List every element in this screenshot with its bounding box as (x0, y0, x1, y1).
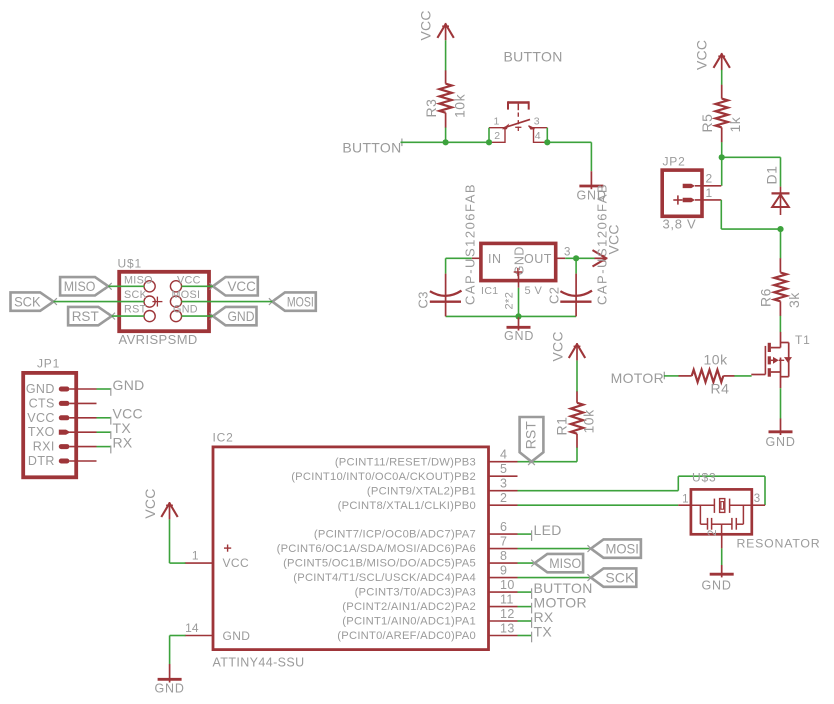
VCC text at OUT (606, 224, 622, 254)
net label BUTTON at switch (342, 139, 402, 156)
svg-text:2*2: 2*2 (504, 292, 516, 310)
svg-text:3: 3 (754, 493, 760, 505)
IC1 value 2*2 vertical (504, 292, 516, 310)
JP1 pin leads (69, 389, 96, 461)
svg-text:VCC: VCC (142, 488, 158, 518)
C3 value CAP-US1206FAB (463, 183, 478, 305)
svg-text:LED: LED (534, 522, 562, 538)
wire RST net vertical (576, 447, 578, 462)
wire VCC to R3 (445, 40, 447, 70)
U$1 pin name MOSI (172, 289, 201, 301)
net label VCC at JP1 (111, 406, 143, 425)
svg-text:(PCINT4/T1/SCL/USCK/ADC4)PA4: (PCINT4/T1/SCL/USCK/ADC4)PA4 (293, 572, 476, 584)
IC1 value 5 V (525, 285, 543, 297)
svg-text:5: 5 (500, 462, 507, 476)
switch pin box 2 (489, 128, 505, 143)
svg-text:BUTTON: BUTTON (504, 49, 563, 65)
svg-text:GND: GND (173, 304, 198, 316)
svg-text:R1: R1 (554, 417, 570, 436)
IC2 pin 1 VCC lead (185, 549, 213, 564)
power symbol VCC at IC2 (161, 502, 177, 519)
svg-text:3,8 V: 3,8 V (663, 217, 697, 232)
wire JP1 VCC stub (97, 417, 111, 419)
wire U$1 to VCC flag (181, 285, 213, 287)
GND text at IC1 (504, 329, 534, 343)
R6 name label (758, 288, 774, 307)
wire PB0 to resonator pin1 (518, 504, 679, 506)
wire VCC to R5 (721, 70, 723, 85)
svg-text:RESONATOR: RESONATOR (737, 536, 821, 550)
JP2 pin 2 lead (695, 172, 721, 186)
resistor R1 (571, 391, 583, 448)
svg-text:R3: R3 (423, 99, 439, 118)
junction switch pin2 (486, 139, 492, 145)
svg-text:SCK: SCK (124, 289, 148, 301)
svg-text:IC2: IC2 (213, 431, 234, 445)
wire JP1 RXI stub (97, 446, 111, 448)
IC1 pin 3 number (564, 246, 570, 258)
svg-text:U$3: U$3 (692, 471, 716, 485)
junction R3 bottom (443, 139, 449, 145)
wire MOTOR to R4 (664, 375, 679, 377)
wire capacitor bottom run (446, 315, 576, 317)
wire JP1 GND stub (97, 388, 111, 390)
resonator value RESONATOR (737, 536, 821, 550)
svg-text:7: 7 (500, 534, 507, 548)
net flag GND (210, 307, 257, 325)
T1 name label (795, 333, 811, 347)
switch contact blade (502, 119, 535, 129)
wire IC2 pin14 horizontal (170, 635, 186, 637)
svg-text:IN: IN (488, 252, 502, 266)
resistor R3 (439, 70, 451, 127)
net flag SCK at IC2 (588, 568, 637, 586)
svg-text:CAP-US1206FAB: CAP-US1206FAB (463, 183, 478, 305)
svg-text:1: 1 (706, 186, 713, 200)
wire PA7 LED stub (518, 533, 532, 535)
svg-text:10k: 10k (704, 352, 729, 368)
wire RST flag to U$1 (112, 315, 145, 317)
resistor R6 (774, 258, 786, 316)
wire R5 to junction (721, 142, 723, 157)
wire U$1 to GND flag (181, 315, 213, 317)
resonator U$3 internal symbol (691, 499, 752, 535)
U$1 value AVRISPSMD (119, 332, 198, 347)
U$1 pin name MISO (124, 275, 153, 287)
svg-text:DTR: DTR (28, 454, 55, 468)
connector JP1 body (23, 373, 76, 477)
wire BUTTON net to switch pin2 (401, 141, 490, 143)
JP1 pin names GND CTS VCC TXO RXI DTR (26, 382, 55, 468)
wire R4 to T1 gate (734, 375, 751, 377)
wire PA4 to SCK flag (518, 577, 591, 579)
programming header U$1 name label (118, 257, 142, 271)
net flag SCK (11, 292, 57, 310)
resonator pin 2 lead (707, 530, 722, 549)
wire switch to GND vertical (590, 142, 592, 171)
svg-text:ATTINY44-SSU: ATTINY44-SSU (213, 656, 305, 670)
svg-text:RST: RST (523, 421, 539, 449)
svg-text:8: 8 (500, 549, 507, 563)
resonator U$3 name label (692, 471, 716, 485)
svg-text:VCC: VCC (227, 278, 255, 294)
svg-text:MOSI: MOSI (172, 289, 201, 301)
net label BUTTON at IC2 (532, 580, 593, 599)
diode D1 (772, 187, 790, 215)
svg-text:MOSI: MOSI (605, 540, 639, 556)
net flag VCC (210, 277, 258, 295)
svg-text:(PCINT9/XTAL2)PB1: (PCINT9/XTAL2)PB1 (367, 485, 476, 497)
switch pin box 4 (534, 128, 548, 143)
svg-text:12: 12 (500, 607, 515, 621)
svg-text:JP1: JP1 (37, 357, 60, 371)
svg-text:BUTTON: BUTTON (342, 140, 401, 156)
IC2 right pin leads (489, 462, 518, 636)
svg-text:10k: 10k (581, 409, 597, 434)
svg-text:(PCINT8/XTAL1/CLKI)PB0: (PCINT8/XTAL1/CLKI)PB0 (338, 500, 476, 512)
net flag RST (68, 307, 115, 325)
wire C2 riser (575, 258, 577, 273)
IC IC2 name label (213, 431, 234, 445)
R3 value 10k (452, 93, 468, 118)
wire JP2 pin1 to D1 junction (721, 228, 780, 230)
connector JP2 name label (663, 155, 686, 169)
wire PB1 riser (677, 476, 679, 491)
resonator U$3 body (691, 489, 752, 534)
JP2 origin plus (673, 195, 682, 204)
svg-text:GND: GND (113, 377, 145, 393)
C2 name label (547, 287, 562, 304)
IC2 right pin labels (277, 456, 476, 642)
resistor R4 (679, 370, 735, 382)
wire C3 riser (445, 258, 447, 273)
net label LED (532, 522, 562, 541)
U$1 pin name GND (173, 304, 198, 316)
svg-text:14: 14 (185, 621, 199, 635)
R1 name label (554, 417, 570, 436)
svg-text:VCC: VCC (177, 275, 201, 287)
resonator pin 1 lead (678, 494, 691, 506)
programming header U$1 body (119, 272, 209, 331)
net label GND at JP1 (111, 377, 145, 396)
svg-text:10k: 10k (452, 93, 468, 118)
svg-text:RST: RST (72, 308, 99, 324)
ground symbol at IC1 (507, 316, 531, 330)
svg-text:CTS: CTS (29, 396, 55, 410)
ground symbol at IC2 (158, 664, 182, 683)
junction OUT (573, 255, 579, 261)
connector JP2 body (662, 170, 702, 216)
wire R1 to VCC (576, 360, 578, 391)
svg-text:9: 9 (500, 563, 507, 577)
VCC text above R1 (550, 331, 566, 361)
wire PA5 to MISO flag (518, 562, 535, 564)
wire OUT to junction (565, 257, 595, 259)
wire R6 to T1 drain (779, 316, 781, 332)
svg-text:2: 2 (500, 491, 507, 505)
svg-text:(PCINT7/ICP/OC0B/ADC7)PA7: (PCINT7/ICP/OC0B/ADC7)PA7 (314, 529, 476, 541)
resonator pin 3 lead (752, 493, 765, 505)
svg-text:(PCINT6/OC1A/SDA/MOSI/ADC6)PA6: (PCINT6/OC1A/SDA/MOSI/ADC6)PA6 (277, 543, 476, 555)
R6 value 3k (786, 292, 802, 308)
svg-text:GND: GND (702, 579, 732, 593)
ground symbol at T1 (769, 419, 793, 436)
IC1 OUT pin lead (556, 257, 566, 259)
R1 value 10k (581, 409, 597, 434)
svg-text:SCK: SCK (605, 569, 635, 585)
IC2 pin name GND (223, 629, 251, 643)
svg-text:(PCINT0/AREF/ADC0)PA0: (PCINT0/AREF/ADC0)PA0 (337, 630, 476, 642)
wire PA3 BUTTON stub (518, 591, 532, 593)
switch pin number 3 (534, 116, 540, 128)
junction D1 bottom (777, 226, 783, 232)
svg-text:VCC: VCC (694, 40, 710, 70)
svg-text:6: 6 (500, 520, 507, 534)
svg-text:SCK: SCK (14, 293, 41, 309)
svg-text:CAP-US1206FAB: CAP-US1206FAB (595, 183, 610, 305)
net flag MISO at IC2 (531, 554, 583, 572)
GND text at IC2 (155, 682, 185, 696)
switch stem cross (515, 127, 521, 132)
switch BUTTON name label (504, 49, 563, 65)
svg-text:1: 1 (192, 549, 199, 563)
svg-text:MISO: MISO (549, 555, 581, 571)
U$1 pin name SCK (124, 289, 148, 301)
svg-text:(PCINT1/AIN0/ADC1)PA1: (PCINT1/AIN0/ADC1)PA1 (342, 616, 476, 628)
IC2 value ATTINY44-SSU (213, 656, 305, 670)
svg-text:IC1: IC1 (481, 285, 499, 297)
IC1 pin name GND vertical (513, 246, 527, 275)
ground symbol at resonator (710, 565, 734, 577)
net label TX at JP1 (111, 420, 132, 439)
wire VCC to IC2 pin1 vertical (169, 519, 171, 563)
svg-text:(PCINT5/OC1B/MISO/DO/ADC5)PA5: (PCINT5/OC1B/MISO/DO/ADC5)PA5 (283, 558, 476, 570)
net label MOTOR at R4 (611, 370, 665, 386)
JP2 value 3,8 V (663, 217, 697, 232)
wire D1 junction to R6 (780, 229, 782, 258)
R5 value 1k (727, 116, 743, 132)
svg-text:3k: 3k (786, 292, 802, 308)
wire D1 drop (780, 157, 782, 186)
svg-text:MISO: MISO (124, 275, 153, 287)
U$1 pin pads (6 circles) (144, 281, 182, 322)
R4 value 10k (704, 352, 729, 368)
svg-text:GND: GND (223, 629, 251, 643)
wire T1 source to GND (780, 388, 782, 419)
wire PB1 top run (678, 475, 765, 477)
net flag MOSI at IC2 (588, 539, 641, 557)
transistor T1 (751, 332, 792, 388)
IC IC2 body (213, 447, 489, 650)
wire resonator pin2 to GND (721, 548, 723, 565)
svg-text:VCC: VCC (223, 556, 250, 570)
svg-text:VCC: VCC (27, 411, 55, 425)
wire switch to GND horizontal (547, 141, 591, 143)
svg-text:(PCINT10/INT0/OC0A/CKOUT)PB2: (PCINT10/INT0/OC0A/CKOUT)PB2 (291, 471, 476, 483)
svg-text:R4: R4 (711, 381, 730, 397)
JP2 pin 1 pad (683, 198, 695, 202)
JP2 pin 1 lead (695, 186, 721, 200)
GND text at T1 (766, 435, 796, 449)
net label RX at JP1 (111, 434, 133, 453)
wire PB1 to resonator horizontal (518, 490, 679, 492)
U$1 pin name VCC (177, 275, 201, 287)
switch dashed stem (517, 113, 519, 127)
wire junction to JP2 pin2 (721, 157, 723, 186)
svg-text:2: 2 (494, 130, 500, 142)
svg-text:TX: TX (534, 623, 553, 639)
U$1 pin name RST (124, 304, 147, 316)
svg-text:(PCINT2/AIN1/ADC2)PA2: (PCINT2/AIN1/ADC2)PA2 (342, 601, 476, 613)
U$1 origin cross (152, 297, 162, 307)
VCC text at IC2 (142, 488, 158, 518)
VCC text above R5 (694, 40, 710, 70)
wire VCC to IC2 pin1 horizontal (170, 562, 186, 564)
IC2 origin cross (224, 545, 231, 552)
power symbol VCC above R5 (714, 53, 730, 70)
svg-text:GND: GND (227, 308, 254, 324)
wire junction to D1 top (722, 156, 781, 158)
svg-text:(PCINT3/T0/ADC3)PA3: (PCINT3/T0/ADC3)PA3 (355, 587, 476, 599)
svg-text:JP2: JP2 (663, 155, 686, 169)
IC1 origin cross (514, 268, 522, 276)
svg-text:4: 4 (500, 448, 507, 462)
regulator IC1 body (481, 243, 556, 280)
D1 name label (764, 166, 780, 185)
IC2 pin name VCC (223, 556, 250, 570)
net label RX at IC2 (532, 609, 554, 628)
wire PB3 to RST net (518, 461, 578, 463)
switch pin number 1 (494, 116, 500, 128)
svg-text:U$1: U$1 (118, 257, 142, 271)
R5 name label (699, 114, 715, 133)
wire switch pin4 stub (546, 128, 548, 143)
IC1 GND pin lead (518, 272, 520, 288)
svg-text:MISO: MISO (64, 278, 96, 294)
wire SCK flag to U$1 (54, 301, 145, 303)
svg-text:13: 13 (500, 621, 515, 635)
IC2 pin 14 GND lead (185, 621, 213, 636)
R4 name label (711, 381, 730, 397)
JP2 pin 2 pad (683, 184, 695, 188)
net flag MISO (60, 277, 112, 295)
IC2 right pin numbers (500, 448, 515, 636)
svg-text:4: 4 (535, 130, 541, 142)
svg-text:1k: 1k (727, 116, 743, 132)
VCC text above R3 (418, 10, 434, 40)
svg-text:3: 3 (500, 477, 507, 491)
power symbol VCC above R3 (437, 23, 453, 40)
wire JP1 TXO stub (97, 431, 111, 433)
wire PA1 RX stub (518, 620, 532, 622)
wire JP2 pin1 drop (720, 200, 722, 229)
IC1 pin name OUT (524, 252, 552, 266)
svg-text:MOTOR: MOTOR (611, 370, 664, 386)
svg-text:C2: C2 (547, 287, 562, 304)
wire PA2 MOTOR stub (518, 606, 532, 608)
svg-text:3: 3 (534, 116, 540, 128)
svg-text:TXO: TXO (28, 425, 55, 439)
svg-text:GND: GND (504, 329, 534, 343)
ground symbol at switch (579, 171, 603, 189)
svg-text:(PCINT11/RESET/DW)PB3: (PCINT11/RESET/DW)PB3 (335, 456, 476, 468)
GND text at resonator (702, 579, 732, 593)
wire PB1 drop to resonator pin3 (764, 476, 766, 505)
svg-text:5 V: 5 V (525, 285, 543, 297)
junction switch pin4 (544, 139, 550, 145)
svg-text:2: 2 (707, 530, 719, 536)
svg-text:RXI: RXI (33, 440, 55, 454)
C2 value CAP-US1206FAB (595, 183, 610, 305)
junction VCC node (719, 154, 725, 160)
svg-text:2: 2 (706, 172, 713, 186)
resistor R5 (716, 85, 728, 143)
svg-text:3: 3 (564, 246, 570, 258)
JP1 pin pads (59, 387, 71, 464)
wire switch pin2 stub (488, 128, 490, 143)
net label MOTOR at IC2 (532, 594, 587, 613)
svg-text:1: 1 (682, 494, 688, 506)
net label TX at IC2 (532, 623, 553, 642)
svg-text:R5: R5 (699, 114, 715, 133)
wire IC2 pin14 vertical (169, 636, 171, 665)
svg-text:RX: RX (113, 434, 133, 450)
capacitor C3 (430, 274, 462, 317)
power symbol VCC above R1 (569, 343, 585, 360)
svg-text:C3: C3 (416, 291, 431, 308)
wire MISO flag to U$1 (108, 285, 144, 287)
wire U$1 to MOSI flag (181, 301, 272, 303)
svg-text:AVRISPSMD: AVRISPSMD (119, 332, 198, 347)
power symbol VCC at OUT (593, 250, 608, 266)
wire PA6 to MOSI flag (518, 548, 591, 550)
svg-text:T1: T1 (795, 333, 811, 347)
svg-text:MOSI: MOSI (287, 293, 314, 309)
connector JP1 name label (37, 357, 60, 371)
net flag MOSI (269, 292, 316, 310)
svg-text:VCC: VCC (418, 10, 434, 40)
R3 name label (423, 99, 439, 118)
wire IN to C3 (446, 257, 472, 259)
junction capacitors GND (515, 313, 521, 319)
svg-text:GND: GND (155, 682, 185, 696)
IC1 IN pin lead (472, 257, 481, 259)
GND text at switch (577, 189, 607, 203)
svg-text:RST: RST (124, 304, 147, 316)
svg-text:GND: GND (766, 435, 796, 449)
svg-text:1: 1 (494, 116, 500, 128)
wire PA0 TX stub (518, 635, 532, 637)
svg-text:10: 10 (500, 578, 515, 592)
switch actuator bracket (508, 101, 529, 110)
svg-text:D1: D1 (764, 166, 780, 185)
svg-text:VCC: VCC (550, 331, 566, 361)
svg-text:OUT: OUT (524, 252, 552, 266)
net flag RST (520, 417, 544, 465)
regulator GND wire (518, 288, 520, 317)
svg-text:GND: GND (26, 382, 55, 396)
svg-text:R6: R6 (758, 288, 774, 307)
capacitor C2 (560, 274, 592, 317)
IC1 pin name IN (488, 252, 502, 266)
IC1 name label (481, 285, 499, 297)
C3 name label (416, 291, 431, 308)
svg-text:11: 11 (500, 592, 514, 606)
wire R3 to BUTTON net (445, 128, 447, 143)
